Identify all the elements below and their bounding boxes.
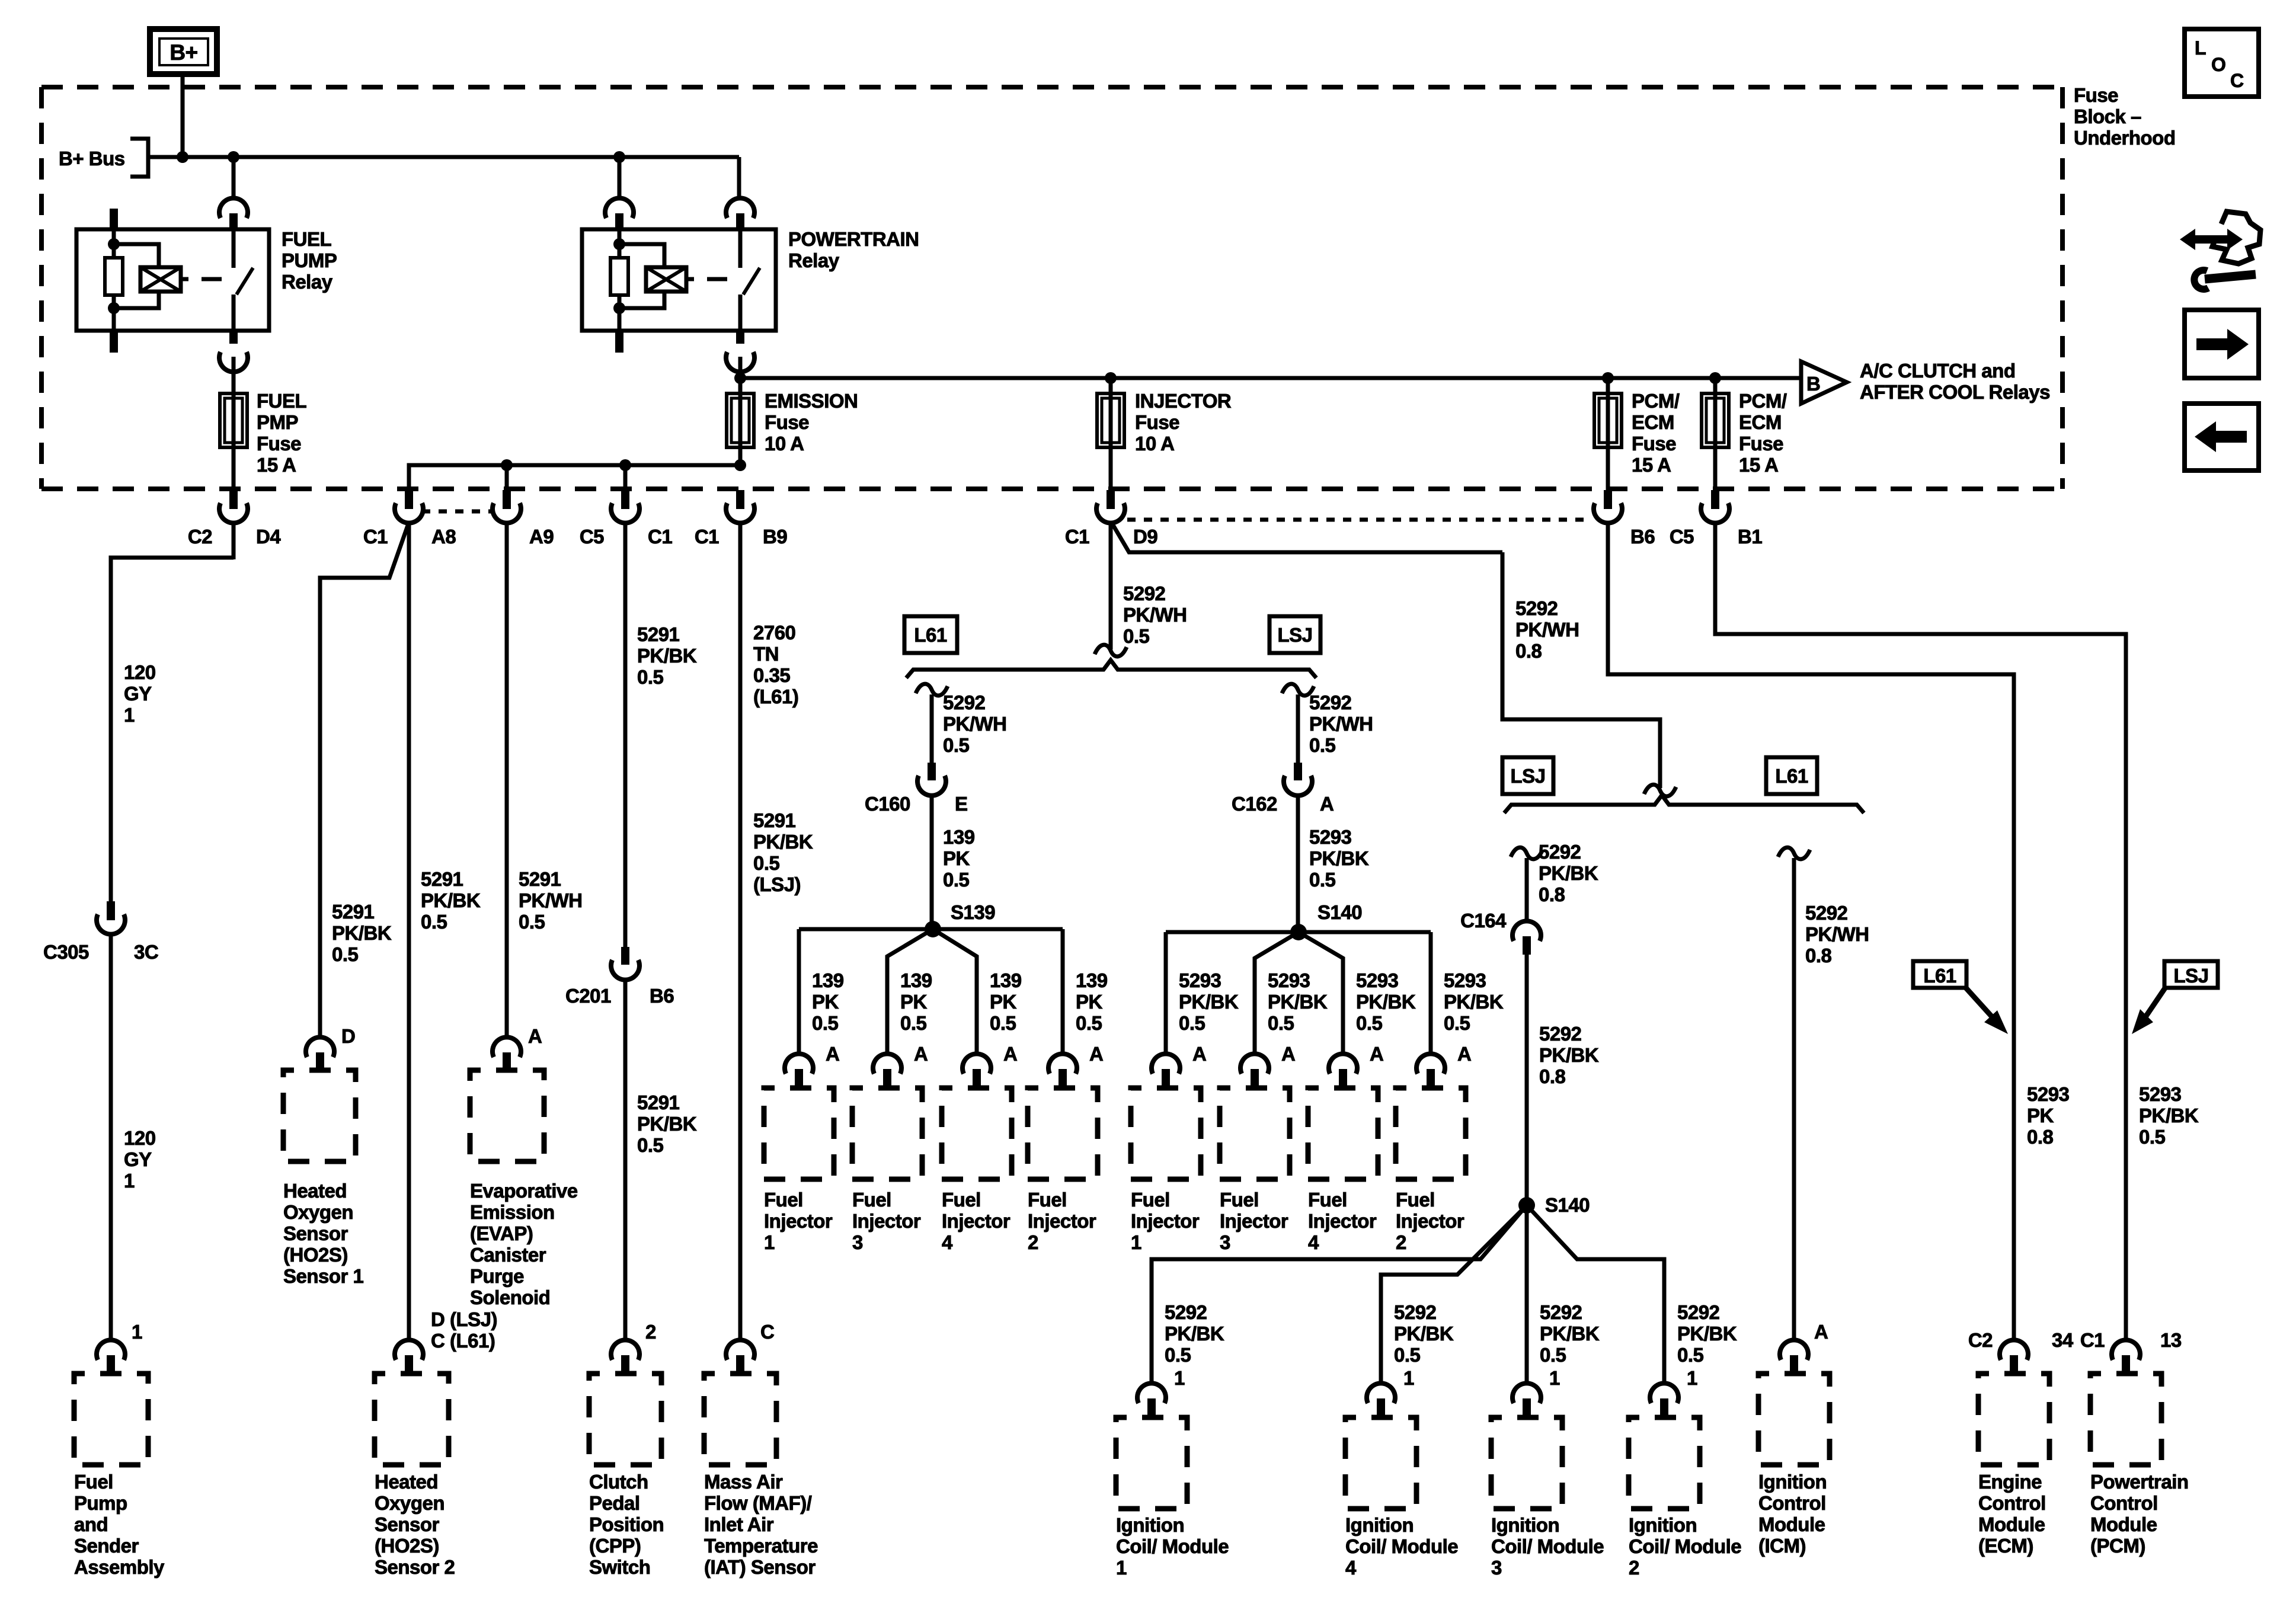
svg-text:Evaporative: Evaporative: [470, 1180, 578, 1202]
svg-text:Clutch: Clutch: [589, 1471, 648, 1493]
connector |B6 cup: [1594, 503, 1622, 523]
powertrain coil wire upper: [618, 229, 622, 258]
component box Ignition Coil Module 4: [1345, 1417, 1416, 1509]
svg-text:PK/WH: PK/WH: [1515, 619, 1579, 641]
svg-text:ECM: ECM: [1739, 411, 1782, 433]
component box EVAP canister purge solenoid: [470, 1070, 544, 1161]
svg-text:LSJ: LSJ: [1277, 624, 1312, 646]
connector dome ignition coil 2: [1650, 1383, 1678, 1403]
svg-text:PK/BK: PK/BK: [637, 1113, 697, 1135]
pin injector 1 group2: [1162, 1069, 1170, 1088]
svg-text:Fuse: Fuse: [257, 433, 301, 454]
wire emission bus to INJECTOR fuse: [1109, 378, 1113, 393]
svg-text:1: 1: [1116, 1557, 1127, 1579]
svg-text:A/C CLUTCH and: A/C CLUTCH and: [1860, 360, 2015, 382]
variant box L61 upper: [904, 616, 957, 653]
svg-text:C1: C1: [1065, 526, 1089, 548]
break symbol above brace 2: [1644, 785, 1676, 796]
icon wrench: [2194, 270, 2208, 289]
component box Fuel Injector 3 group1: [852, 1088, 922, 1179]
connector cup fuel pump relay bottom: [219, 352, 248, 372]
node junction fuel pump relay feed: [228, 151, 239, 163]
svg-text:Pedal: Pedal: [589, 1492, 640, 1514]
icon LOC box: [2185, 29, 2259, 97]
svg-text:A: A: [914, 1043, 928, 1065]
svg-text:Injector: Injector: [1131, 1210, 1200, 1232]
wire brace2 to C164: [1525, 858, 1529, 922]
svg-text:(ECM): (ECM): [1978, 1535, 2033, 1557]
svg-text:and: and: [74, 1513, 108, 1535]
svg-text:0.5: 0.5: [332, 943, 359, 965]
connector C305 pin: [107, 901, 115, 920]
component box Powertrain Control Module PCM: [2090, 1374, 2161, 1465]
svg-text:PK/BK: PK/BK: [1539, 1044, 1599, 1066]
svg-text:C5: C5: [580, 526, 604, 548]
connector dome EVAP: [493, 1037, 521, 1057]
node splice S140 upper: [1290, 924, 1307, 940]
svg-text:5293: 5293: [1179, 969, 1221, 991]
svg-text:1: 1: [1131, 1231, 1141, 1253]
svg-text:PK/BK: PK/BK: [753, 831, 813, 853]
svg-text:Temperature: Temperature: [704, 1535, 818, 1557]
svg-text:5291: 5291: [421, 868, 463, 890]
callout arrow L61: [1965, 987, 1998, 1024]
break symbol above brace 1: [1095, 645, 1127, 657]
svg-text:PK: PK: [943, 847, 970, 869]
svg-text:PK/WH: PK/WH: [519, 889, 583, 911]
svg-text:Mass Air: Mass Air: [704, 1471, 783, 1493]
powertrain coil stub bottom: [615, 331, 623, 353]
connector dome MAF: [726, 1340, 754, 1360]
pin HO2S2: [405, 1355, 413, 1374]
wire B+ to bus: [181, 74, 185, 157]
B+ power symbol box: [150, 29, 217, 74]
svg-text:C1: C1: [2080, 1329, 2105, 1351]
fuse block boundary (dashed) - top edge: [41, 85, 2062, 89]
svg-text:C162: C162: [1232, 793, 1277, 815]
pin injector 1 group1: [795, 1069, 803, 1088]
pin powertrain relay switch bottom: [736, 331, 744, 344]
svg-text:2: 2: [1028, 1231, 1038, 1253]
svg-text:AFTER COOL Relays: AFTER COOL Relays: [1860, 381, 2050, 403]
svg-text:C164: C164: [1460, 910, 1507, 932]
svg-text:0.5: 0.5: [637, 1134, 664, 1156]
svg-text:PK: PK: [2027, 1105, 2054, 1126]
switch lower wire powertrain relay: [738, 295, 743, 331]
component box Ignition Coil Module 3: [1491, 1417, 1562, 1509]
svg-text:A: A: [1192, 1043, 1206, 1065]
svg-text:C2: C2: [1968, 1329, 1993, 1351]
svg-text:Control: Control: [1758, 1492, 1826, 1514]
wire brace2 to ICM: [1792, 858, 1796, 1341]
relay box FUEL PUMP Relay: [76, 229, 269, 331]
svg-text:(IAT) Sensor: (IAT) Sensor: [704, 1556, 816, 1578]
svg-text:PK: PK: [1076, 991, 1103, 1013]
svg-text:0.5: 0.5: [1444, 1012, 1470, 1034]
svg-text:Injector: Injector: [764, 1210, 833, 1232]
node junction powertrain relay coil feed: [613, 151, 625, 163]
fuse block boundary (dashed) - right edge: [2060, 87, 2065, 489]
connector C5|B1 pin at fuse block exit: [1711, 490, 1719, 509]
svg-text:Module: Module: [1978, 1513, 2045, 1535]
svg-text:0.5: 0.5: [812, 1012, 839, 1034]
svg-text:5292: 5292: [1394, 1301, 1437, 1323]
component box Fuel Injector 1 group2: [1131, 1088, 1201, 1179]
svg-text:0.5: 0.5: [1123, 625, 1150, 647]
svg-text:Sensor: Sensor: [283, 1222, 348, 1244]
linkage dash powertrain relay: [707, 277, 727, 281]
svg-text:139: 139: [812, 969, 844, 991]
connector C201 pin: [621, 947, 629, 965]
svg-text:5292: 5292: [1805, 902, 1848, 924]
svg-text:(PCM): (PCM): [2090, 1535, 2145, 1557]
svg-text:C305: C305: [43, 941, 89, 963]
svg-text:EMISSION: EMISSION: [765, 390, 858, 412]
svg-text:(CPP): (CPP): [589, 1535, 641, 1557]
switch arm fuel pump relay: [236, 268, 253, 295]
svg-text:Relay: Relay: [788, 249, 840, 271]
pin powertrain switch top: [736, 213, 744, 230]
connector C305 cup: [97, 914, 125, 934]
svg-text:Module: Module: [1758, 1513, 1825, 1535]
svg-text:(HO2S): (HO2S): [375, 1535, 439, 1557]
icon double arrow: [2193, 235, 2230, 244]
svg-text:Coil/ Module: Coil/ Module: [1629, 1535, 1741, 1557]
pin PCM: [2122, 1355, 2130, 1374]
connector C160 pin: [928, 763, 936, 780]
svg-text:PK/BK: PK/BK: [1165, 1323, 1224, 1345]
svg-text:PMP: PMP: [257, 411, 298, 433]
svg-text:A: A: [528, 1025, 542, 1047]
break symbol under brace 2 right: [1778, 847, 1810, 859]
svg-text:B+: B+: [170, 40, 197, 65]
switch arm powertrain relay: [743, 268, 760, 295]
svg-text:PK/BK: PK/BK: [1356, 991, 1416, 1013]
connector dome PCM: [2112, 1340, 2140, 1360]
svg-text:A8: A8: [431, 526, 456, 548]
svg-text:Fuel: Fuel: [1028, 1189, 1067, 1211]
svg-text:Switch: Switch: [589, 1556, 650, 1578]
svg-text:B9: B9: [763, 526, 787, 548]
svg-text:5291: 5291: [332, 901, 375, 923]
connector C1|D9 pin at fuse block exit: [1107, 490, 1115, 509]
wire brace to C162: [1296, 694, 1300, 763]
wire B+ bus horizontal: [148, 155, 739, 159]
connector C201 cup: [611, 960, 639, 980]
svg-text:E: E: [955, 793, 968, 815]
winding tail: [181, 277, 188, 281]
fuse block boundary (dashed) - bottom edge: [41, 486, 2062, 491]
svg-text:120: 120: [124, 1127, 156, 1149]
node sub-bus EVAP tap: [501, 459, 513, 471]
fuse EMISSION 10A: [727, 393, 754, 447]
svg-text:PK: PK: [812, 991, 839, 1013]
svg-text:Injector: Injector: [852, 1210, 921, 1232]
wire S139 to injector 4: [933, 929, 977, 1055]
svg-text:INJECTOR: INJECTOR: [1135, 390, 1232, 412]
component box Fuel Injector 3 group2: [1220, 1088, 1290, 1179]
svg-text:Ignition: Ignition: [1629, 1514, 1697, 1536]
wire emission bus to PCM ECM fuse 1: [1606, 378, 1610, 393]
svg-text:4: 4: [1345, 1557, 1357, 1579]
connector dome injector 1 group1: [785, 1054, 813, 1074]
svg-text:Powertrain: Powertrain: [2090, 1471, 2189, 1493]
wire C305 to fuel pump: [109, 933, 113, 1341]
svg-text:(ICM): (ICM): [1758, 1535, 1806, 1557]
svg-text:(EVAP): (EVAP): [470, 1222, 533, 1244]
connector |A9 pin at fuse block exit: [503, 490, 511, 509]
callout box LSJ arrow: [2164, 961, 2218, 988]
svg-text:FUEL: FUEL: [257, 390, 307, 412]
switch fixed contact fuel pump relay: [232, 229, 236, 268]
connector dome fuel pump: [97, 1340, 125, 1360]
svg-text:5291: 5291: [753, 809, 796, 831]
svg-text:15 A: 15 A: [1739, 454, 1778, 476]
component box Fuel Injector 4 group2: [1308, 1088, 1378, 1179]
svg-text:Injector: Injector: [1220, 1210, 1288, 1232]
svg-text:PK/BK: PK/BK: [2139, 1105, 2199, 1126]
wire B6 to ECM: [1608, 522, 2014, 1341]
svg-text:1: 1: [764, 1231, 775, 1253]
wire S140 header: [1166, 930, 1431, 934]
svg-text:C201: C201: [565, 985, 611, 1007]
wire A9 down: [505, 522, 509, 1038]
svg-text:Fuel: Fuel: [1308, 1189, 1347, 1211]
connector dome CPP: [611, 1340, 639, 1360]
component box MAF IAT sensor: [704, 1374, 776, 1465]
winding symbol powertrain relay: [646, 267, 686, 292]
connector dome fuel pump relay top: [219, 198, 248, 218]
svg-text:PK/WH: PK/WH: [943, 713, 1007, 735]
svg-text:0.5: 0.5: [1394, 1344, 1421, 1366]
wire A8 down to HO2S2: [407, 522, 411, 1341]
wire S140 to ignition coil 2: [1527, 1205, 1664, 1384]
svg-text:Underhood: Underhood: [2074, 127, 2175, 149]
wire through PCM ECM fuse 2: [1713, 393, 1718, 490]
dotted link D9 to B6: [1127, 518, 1592, 522]
connector C1|A8 pin at fuse block exit: [405, 490, 413, 509]
svg-text:Ignition: Ignition: [1758, 1471, 1827, 1493]
svg-text:C2: C2: [188, 526, 212, 548]
wire D9 diagonal branch: [1113, 525, 1502, 552]
svg-text:PK/BK: PK/BK: [1539, 862, 1598, 884]
svg-text:139: 139: [990, 969, 1022, 991]
wire through EMISSION fuse: [738, 378, 743, 465]
svg-text:3: 3: [1491, 1557, 1502, 1579]
svg-text:B: B: [1806, 373, 1820, 395]
connector dome ECM: [2000, 1340, 2028, 1360]
fuse PCM ECM 15A left: [1594, 393, 1622, 447]
wire bus to powertrain coil: [618, 157, 622, 199]
svg-text:A: A: [1003, 1043, 1017, 1065]
svg-text:1: 1: [1403, 1367, 1414, 1389]
svg-text:0.5: 0.5: [990, 1012, 1016, 1034]
svg-text:Position: Position: [589, 1513, 664, 1535]
connector |B6 pin at fuse block exit: [1604, 490, 1612, 509]
svg-text:A: A: [1320, 793, 1334, 815]
linkage dash fuel pump relay: [202, 277, 222, 281]
wire bus corner to powertrain switch: [737, 157, 741, 199]
svg-text:0.5: 0.5: [753, 852, 780, 874]
svg-text:2: 2: [1396, 1231, 1406, 1253]
svg-text:2: 2: [645, 1321, 656, 1343]
svg-text:Fuel: Fuel: [852, 1189, 891, 1211]
svg-text:120: 120: [124, 661, 156, 683]
break symbol under brace left: [916, 684, 948, 696]
wire sub-bus to A9: [505, 465, 509, 490]
connector dome injector 3 group2: [1240, 1054, 1269, 1074]
switch fixed contact powertrain relay: [738, 229, 743, 268]
component box Clutch Pedal Position Switch: [589, 1374, 661, 1465]
svg-text:Block –: Block –: [2074, 105, 2141, 127]
brace splitting L61 LSJ: [906, 660, 1316, 678]
svg-text:Canister: Canister: [470, 1244, 546, 1266]
svg-text:C: C: [760, 1321, 774, 1343]
svg-text:PK: PK: [990, 991, 1017, 1013]
connector dome HO2S2: [395, 1340, 423, 1360]
svg-text:C1: C1: [363, 526, 388, 548]
svg-text:Fuse: Fuse: [2074, 84, 2118, 106]
svg-text:C: C: [2230, 70, 2244, 91]
svg-text:Ignition: Ignition: [1491, 1514, 1559, 1536]
svg-text:1: 1: [1687, 1367, 1697, 1389]
pin fuel pump relay switch top: [229, 213, 238, 230]
svg-text:0.5: 0.5: [1076, 1012, 1102, 1034]
svg-text:5293: 5293: [2139, 1083, 2182, 1105]
svg-text:Injector: Injector: [1028, 1210, 1096, 1232]
svg-text:B6: B6: [1630, 526, 1655, 548]
svg-text:5293: 5293: [2027, 1083, 2070, 1105]
svg-text:PK/BK: PK/BK: [1540, 1323, 1600, 1345]
svg-text:Purge: Purge: [470, 1265, 524, 1287]
wire relay to FUEL PMP fuse: [232, 357, 236, 393]
svg-text:1: 1: [124, 704, 135, 726]
svg-text:Sensor: Sensor: [375, 1513, 440, 1535]
svg-text:15 A: 15 A: [1632, 454, 1671, 476]
svg-text:0.5: 0.5: [519, 911, 545, 933]
wire S140 to injector 3: [1255, 932, 1299, 1055]
component box Ignition Coil Module 1: [1116, 1417, 1187, 1509]
node injector fuse tap on emission bus: [1105, 372, 1117, 384]
connector C2|D4 pin at fuse block exit: [229, 490, 238, 509]
break symbol under brace right: [1282, 684, 1314, 696]
connector dome ignition coil 3: [1512, 1383, 1541, 1403]
svg-text:Control: Control: [2090, 1492, 2158, 1514]
svg-text:C1: C1: [695, 526, 719, 548]
connector C5|C1 cup: [611, 503, 639, 523]
connector dome powertrain switch top: [726, 198, 754, 218]
svg-text:139: 139: [943, 826, 975, 848]
svg-text:5291: 5291: [637, 623, 680, 645]
svg-text:S140: S140: [1545, 1194, 1590, 1216]
icon left arrow box: [2185, 404, 2259, 470]
connector cup powertrain relay bottom: [726, 352, 754, 372]
component box Fuel Injector 1 group1: [764, 1088, 834, 1179]
svg-text:PCM/: PCM/: [1632, 390, 1680, 412]
svg-text:Fuel: Fuel: [1220, 1189, 1259, 1211]
svg-text:L: L: [2195, 37, 2206, 59]
icon right arrow box: [2185, 310, 2259, 378]
svg-text:5292: 5292: [1515, 597, 1558, 619]
svg-text:0.5: 0.5: [421, 911, 447, 933]
svg-text:4: 4: [942, 1231, 953, 1253]
svg-text:D9: D9: [1133, 526, 1157, 548]
pin ignition coil 3: [1523, 1398, 1531, 1417]
wire S140 to injector 2: [1429, 932, 1433, 1055]
svg-text:C160: C160: [865, 793, 910, 815]
node splice S139: [925, 921, 941, 937]
wire branch down right: [1502, 552, 1660, 788]
icon vehicle outline: [2212, 212, 2260, 264]
wire D4 jog left: [111, 558, 234, 901]
svg-text:5292: 5292: [1540, 1301, 1582, 1323]
wire powertrain relay to emission bus: [738, 357, 743, 393]
pin injector 3 group2: [1251, 1069, 1259, 1088]
fuse PCM ECM 15A right: [1702, 393, 1729, 447]
svg-text:Fuel: Fuel: [1131, 1189, 1170, 1211]
component box Fuel Injector 2 group1: [1028, 1088, 1098, 1179]
svg-text:Injector: Injector: [1308, 1210, 1377, 1232]
pin injector 2 group2: [1427, 1069, 1435, 1088]
component box HO2S Sensor 2: [375, 1374, 449, 1465]
wire sub-bus to C5: [623, 465, 628, 490]
component box Fuel Injector 4 group1: [942, 1088, 1012, 1179]
svg-text:139: 139: [1076, 969, 1108, 991]
svg-text:Sender: Sender: [74, 1535, 139, 1557]
svg-text:0.5: 0.5: [1268, 1012, 1294, 1034]
svg-text:0.5: 0.5: [900, 1012, 927, 1034]
svg-text:0.8: 0.8: [2027, 1126, 2054, 1148]
svg-text:L61: L61: [1775, 765, 1808, 787]
svg-text:5292: 5292: [1677, 1301, 1720, 1323]
svg-text:0.5: 0.5: [637, 666, 664, 688]
svg-text:0.5: 0.5: [1309, 734, 1336, 756]
svg-text:PK/WH: PK/WH: [1309, 713, 1373, 735]
node splice S140 lower: [1518, 1197, 1535, 1214]
connector C164 dome: [1512, 921, 1541, 941]
relay box POWERTRAIN Relay: [582, 229, 776, 331]
pin injector 4 group2: [1339, 1069, 1347, 1088]
svg-text:PK/BK: PK/BK: [637, 645, 697, 667]
svg-text:B+ Bus: B+ Bus: [59, 148, 125, 169]
wire D9 down: [1109, 522, 1113, 649]
pin CPP: [621, 1355, 629, 1374]
svg-text:A: A: [1814, 1321, 1828, 1343]
wire B1 to PCM: [1715, 522, 2126, 1341]
svg-text:34: 34: [2052, 1329, 2074, 1351]
pin MAF: [736, 1355, 744, 1374]
connector dome HO2S1: [306, 1037, 334, 1057]
connector C1|A8 cup: [395, 503, 423, 523]
connector |A9 cup: [493, 503, 521, 523]
svg-text:PK/BK: PK/BK: [1309, 847, 1369, 869]
break symbol under brace 2 left: [1511, 847, 1543, 859]
svg-text:1: 1: [132, 1321, 142, 1343]
svg-text:5291: 5291: [637, 1092, 680, 1113]
connector C162 pin: [1294, 763, 1302, 780]
svg-text:Heated: Heated: [375, 1471, 438, 1493]
fuse block boundary (dashed) - left edge: [39, 87, 44, 489]
wire emission bus to PCM ECM fuse 2: [1713, 378, 1718, 393]
svg-text:0.5: 0.5: [943, 734, 970, 756]
svg-text:5293: 5293: [1309, 826, 1352, 848]
svg-text:2: 2: [1629, 1557, 1639, 1579]
wire through PCM ECM fuse 1: [1606, 393, 1610, 490]
icon left arrow: [2216, 431, 2247, 443]
node PCM ECM fuse 1 tap: [1602, 372, 1614, 384]
svg-text:0.5: 0.5: [1677, 1344, 1704, 1366]
wire coil branch bottom: [114, 292, 159, 308]
